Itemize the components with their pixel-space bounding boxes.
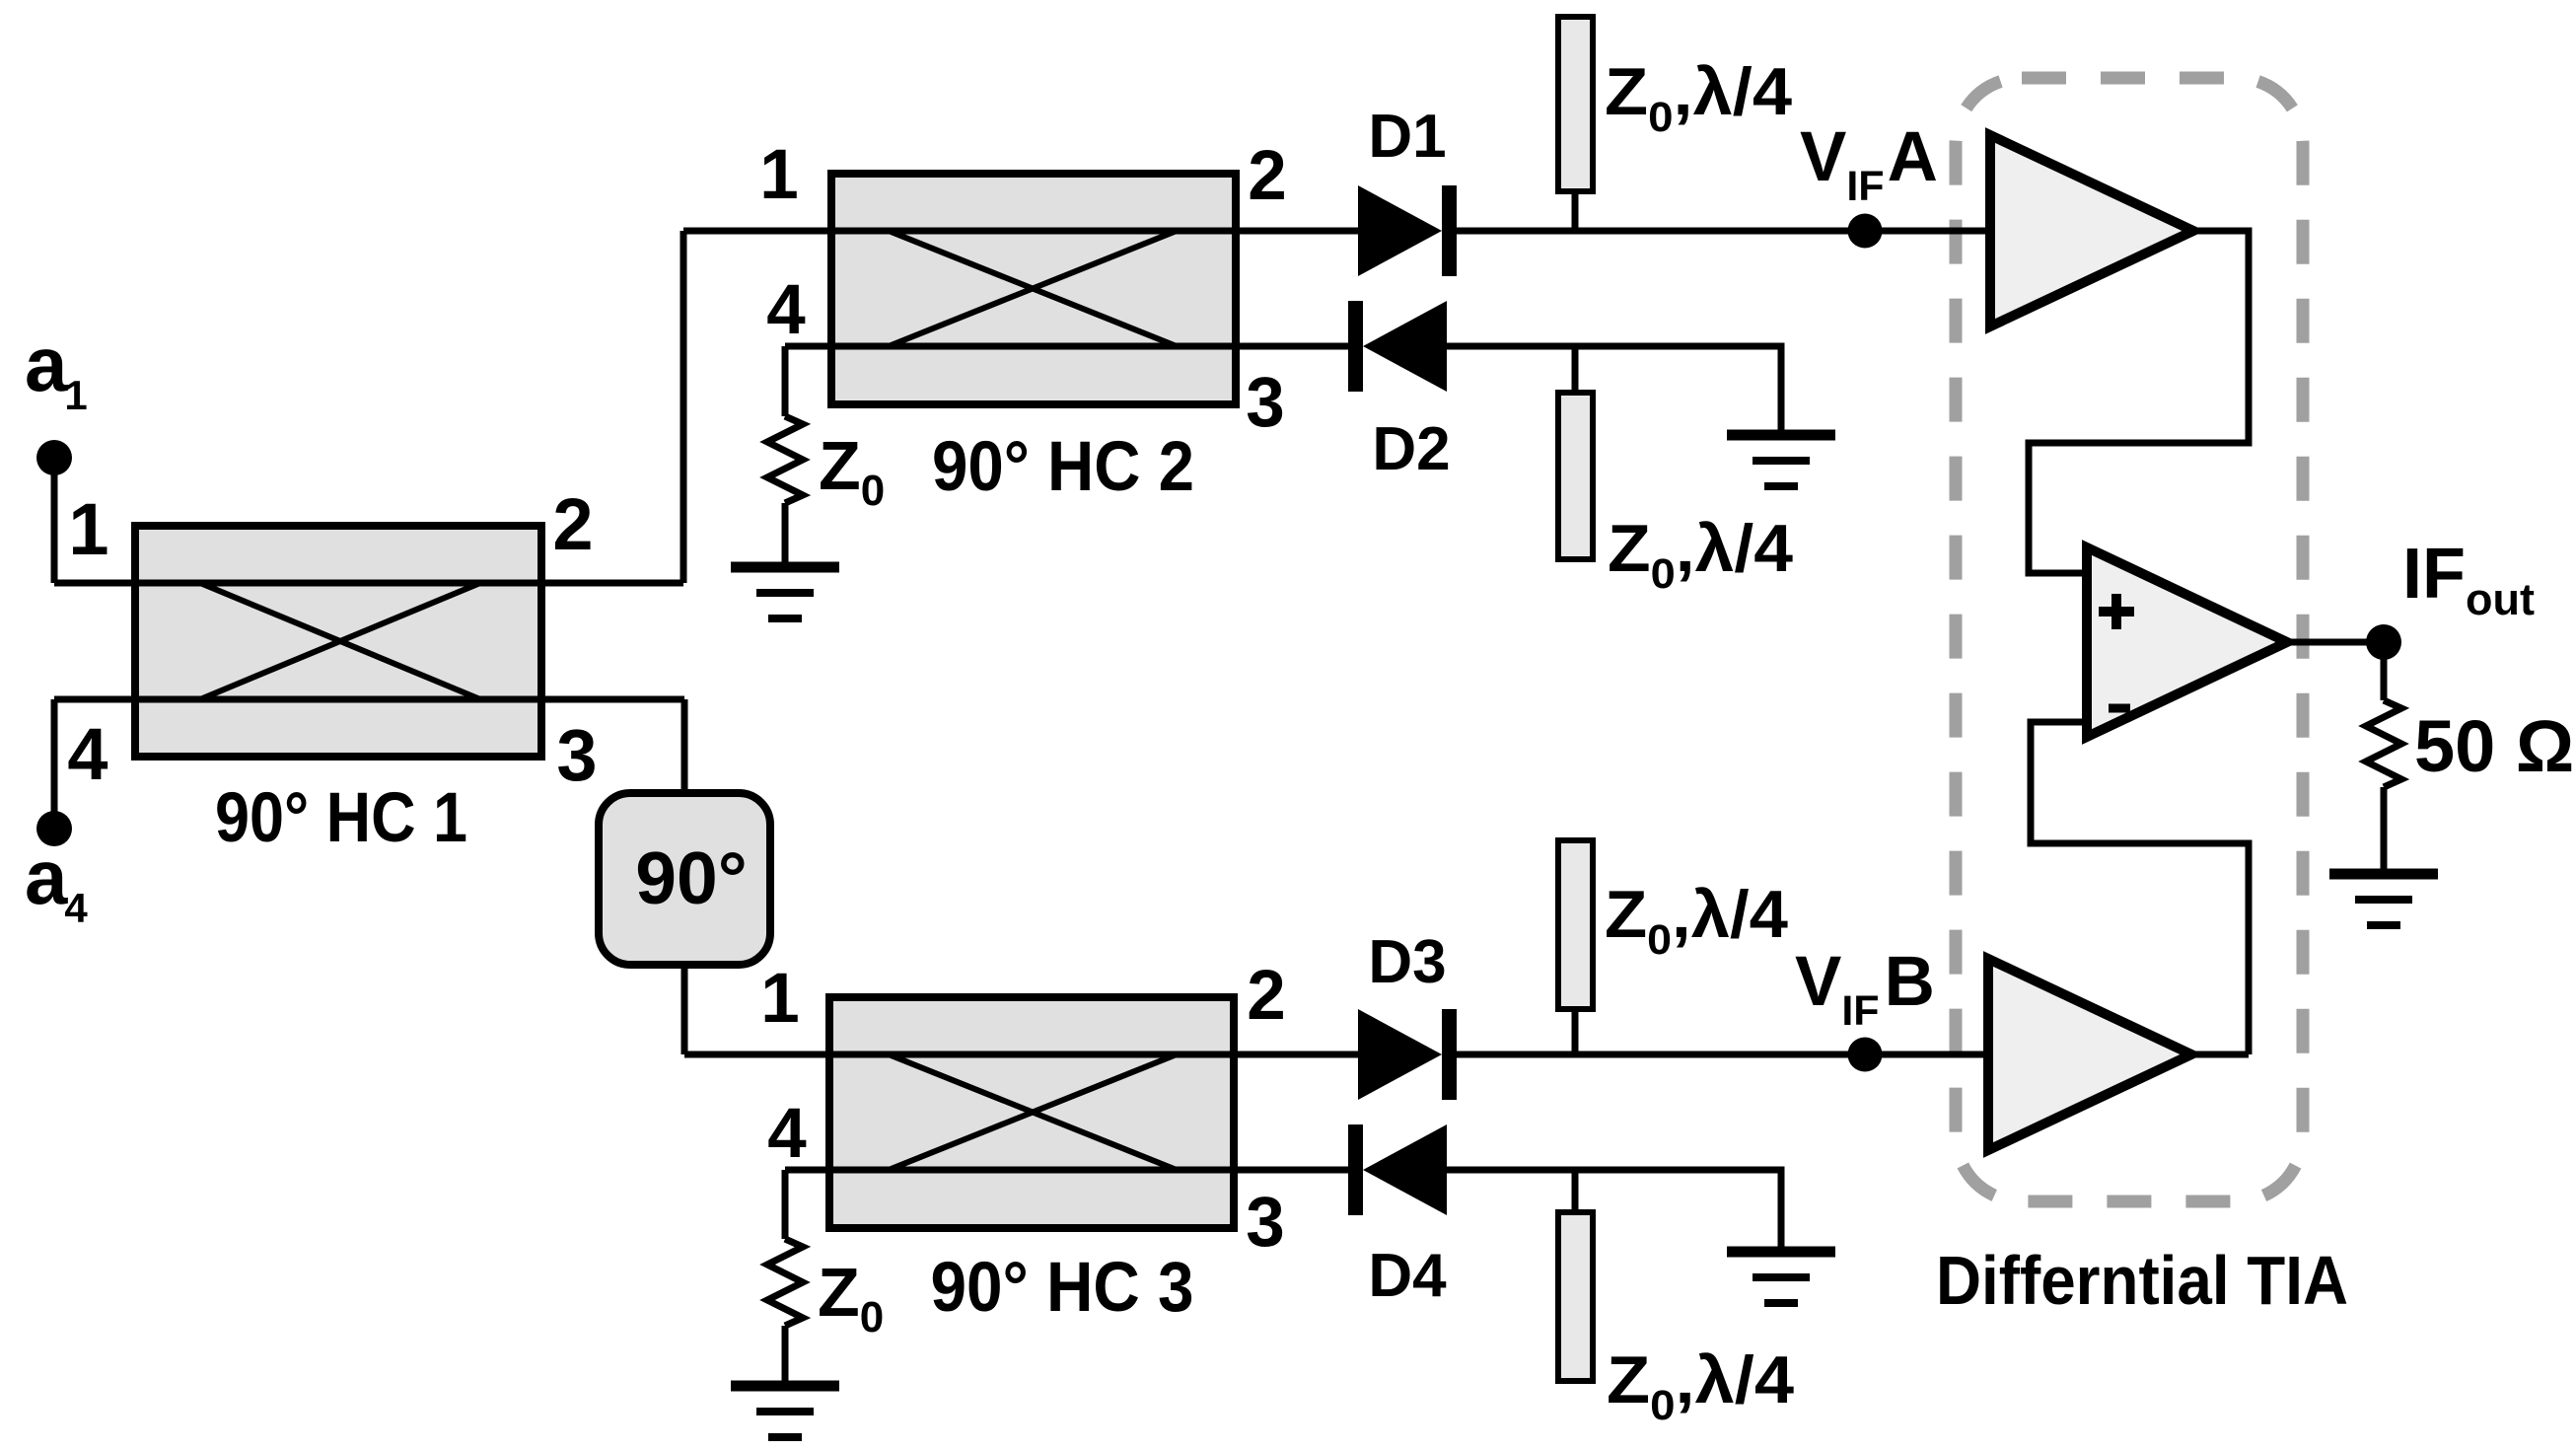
wire a1 down to HC1 port 1: [51, 458, 58, 583]
svg-text:90° HC 1: 90° HC 1: [215, 779, 467, 857]
svg-text:Z0,λ/4: Z0,λ/4: [1608, 511, 1793, 598]
svg-text:90° HC 3: 90° HC 3: [931, 1249, 1194, 1327]
wire HC2 bottom line (port4 to D2): [785, 343, 1348, 350]
ground (IF out load): [2329, 869, 2438, 880]
svg-text:D2: D2: [1372, 415, 1450, 483]
svg-text:3: 3: [1246, 364, 1285, 442]
hybrid coupler HC3 body: [829, 997, 1234, 1228]
resistor Z0 (HC3 termination): [767, 1239, 803, 1326]
wire HC3 top line into D3: [684, 1051, 1358, 1058]
port a4 terminal: [36, 699, 72, 846]
wire op-amp - input to amp B output: [2031, 722, 2249, 1054]
diode D3: [1358, 1009, 1457, 1100]
wire IF out node down to 50 ohm resistor: [2381, 642, 2388, 700]
svg-text:D3: D3: [1368, 928, 1446, 996]
svg-text:50 Ω: 50 Ω: [2414, 705, 2574, 787]
svg-text:Differntial TIA: Differntial TIA: [1936, 1242, 2348, 1319]
wire HC3 bottom line (port4 to D4): [785, 1167, 1348, 1174]
op-amp summing stage: [2087, 547, 2287, 737]
wire HC2 top line into D1: [683, 228, 1358, 235]
hybrid coupler HC2 cross: [889, 231, 1177, 346]
ground (A lower line): [1727, 430, 1835, 441]
svg-text:90°: 90°: [635, 836, 747, 919]
ground (HC3 termination): [731, 1381, 839, 1392]
svg-text:Z0,λ/4: Z0,λ/4: [1605, 54, 1792, 141]
hybrid coupler HC1 body: [135, 526, 541, 757]
wire D2 line to ground drop: [1447, 346, 1781, 435]
svg-text:4: 4: [767, 1095, 807, 1173]
stub Z0 lambda/4 (lower A): [1558, 346, 1593, 559]
svg-text:3: 3: [1246, 1184, 1285, 1262]
wire D1 to TIA input A: [1457, 228, 1990, 235]
wire HC1 bottom line (port4 to port3): [54, 696, 684, 703]
wire down to resistor Z0 of HC3: [782, 1170, 789, 1239]
wire phase shifter down to HC3 port1: [681, 965, 688, 1054]
svg-text:D1: D1: [1368, 103, 1446, 171]
wire amp A output to op-amp + input: [2029, 231, 2249, 573]
port a1 terminal: [36, 440, 72, 583]
diode D1: [1358, 185, 1457, 276]
minus input mark: [2109, 704, 2130, 713]
diode D2: [1348, 301, 1447, 392]
wire op-amp output to IF out node: [2287, 639, 2384, 646]
resistor Z0 (HC2 termination): [767, 416, 803, 503]
svg-text:2: 2: [1247, 957, 1286, 1035]
wire a4 up to HC1 port 4: [51, 699, 58, 829]
differential TIA dashed boundary: [1956, 78, 2303, 1201]
svg-text:4: 4: [766, 271, 806, 349]
svg-text:1: 1: [68, 488, 108, 570]
stub Z0 lambda/4 (upper A): [1558, 17, 1593, 231]
svg-text:3: 3: [556, 714, 597, 796]
svg-text:Z0,λ/4: Z0,λ/4: [1605, 877, 1788, 964]
wire down to resistor Z0 of HC2: [782, 346, 789, 416]
stub Z0 lambda/4 (lower B): [1558, 1170, 1593, 1381]
svg-text:D4: D4: [1368, 1242, 1447, 1310]
svg-text:Z0,λ/4: Z0,λ/4: [1607, 1342, 1794, 1429]
wire HC1 top line (port1 to port2): [54, 580, 683, 587]
stub Z0 lambda/4 (upper B): [1558, 840, 1593, 1054]
resistor 50 ohm: [2366, 700, 2401, 787]
ground (B lower line): [1727, 1247, 1835, 1258]
diode D4: [1348, 1124, 1447, 1215]
svg-text:2: 2: [552, 483, 593, 565]
wire amp B output: [2191, 1051, 2249, 1058]
node VIF B: [1848, 1038, 1883, 1072]
wire resistor to ground: [2381, 787, 2388, 874]
hybrid coupler HC1 cross: [200, 583, 480, 699]
hybrid coupler HC3 cross: [889, 1054, 1177, 1170]
svg-text:90° HC 2: 90° HC 2: [932, 428, 1194, 506]
svg-text:1: 1: [760, 960, 800, 1038]
ground (HC2 termination): [731, 562, 839, 573]
plus input mark: [2099, 594, 2134, 629]
svg-text:4: 4: [67, 713, 107, 795]
wire resistor to ground: [782, 503, 789, 567]
wire D3 to TIA input B: [1457, 1051, 1988, 1058]
node IF out: [2366, 624, 2401, 660]
wire riser HC1 port2 up to HC2 port1: [680, 231, 687, 583]
hybrid coupler HC2 body: [831, 174, 1236, 404]
svg-text:2: 2: [1248, 137, 1287, 215]
wire D4 line to ground drop: [1447, 1170, 1781, 1252]
amplifier A (top buffer): [1990, 135, 2193, 326]
wire riser HC1 port3 down to phase shifter: [681, 699, 688, 793]
phase shifter 90°: [599, 793, 770, 965]
node VIF A: [1848, 214, 1883, 249]
svg-text:1: 1: [759, 136, 799, 214]
amplifier B (bottom buffer): [1988, 959, 2191, 1150]
wire resistor to ground: [782, 1326, 789, 1386]
